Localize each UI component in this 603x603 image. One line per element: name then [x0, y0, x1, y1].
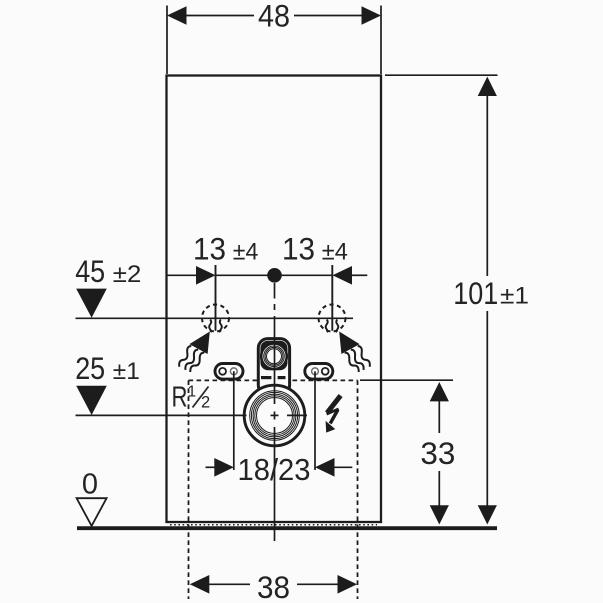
svg-text:±1: ±1	[113, 358, 140, 385]
dimension 18/23: arrows	[206, 466, 216, 468]
lightning bolt (electrical connection)	[327, 396, 341, 424]
seal strip under module	[170, 524, 377, 526]
vertical centerline	[274, 283, 276, 299]
svg-text:25: 25	[75, 350, 105, 386]
dimension 18/23: leader lines from flange holes	[233, 371, 235, 470]
svg-text:±2: ±2	[113, 261, 142, 288]
svg-text:±4: ±4	[322, 239, 348, 266]
dimension 38: line + arrows	[208, 583, 250, 585]
drain pipe: outer circle	[244, 385, 305, 446]
svg-text:2: 2	[201, 394, 210, 412]
dimension 13+13: line	[167, 274, 198, 276]
floor line	[77, 526, 497, 530]
svg-text:R: R	[172, 382, 188, 414]
svg-text:±4: ±4	[233, 239, 258, 266]
svg-text:0: 0	[82, 469, 98, 501]
svg-text:45: 45	[75, 253, 105, 289]
level 45 marker triangle	[76, 289, 107, 318]
dimension 33: extension line	[360, 379, 453, 381]
dimension 48: extension lines	[166, 6, 168, 75]
module outline (sanitary module front view)	[167, 76, 382, 523]
level line 45	[76, 317, 354, 319]
dashed layout rect: top edge	[189, 379, 358, 381]
dashed layout rect: right edge	[357, 380, 359, 599]
dimension 101: extension line top	[385, 74, 498, 76]
dimension 101: vertical line	[486, 95, 488, 276]
moist air arrow left (triangle + waves)	[177, 332, 209, 374]
svg-text:1: 1	[188, 384, 197, 401]
svg-text:18/23: 18/23	[238, 453, 311, 487]
level line 25 (also circle crosshair)	[76, 414, 247, 416]
moist air arrow right (mirrored)	[339, 332, 371, 374]
left flange	[215, 364, 243, 380]
dimension 48: line + arrows	[186, 15, 254, 17]
water supply fitting (rounded rect + rings)	[258, 339, 289, 395]
right flange	[305, 364, 333, 380]
R 1/2 label	[172, 382, 211, 414]
svg-text:33: 33	[420, 435, 455, 471]
svg-text:13: 13	[193, 231, 226, 267]
svg-text:±1: ±1	[500, 283, 529, 310]
dashed circle right	[319, 305, 346, 332]
dashed circle left (wall opening)	[202, 305, 229, 332]
svg-text:101: 101	[453, 275, 498, 311]
center node dot	[267, 268, 282, 283]
dimension 13 extension lines	[215, 265, 217, 331]
drain pipe ring band	[250, 391, 300, 441]
svg-text:38: 38	[257, 569, 290, 603]
squiggles inside left circle	[209, 320, 222, 333]
svg-text:48: 48	[258, 0, 290, 34]
dimension 33: vertical + arrows	[438, 401, 440, 434]
level 25 marker triangle	[76, 386, 107, 415]
svg-text:13: 13	[282, 231, 315, 267]
squiggles inside right circle	[326, 320, 339, 333]
dashed layout rect: left edge	[188, 380, 190, 599]
level 0 marker open triangle	[77, 498, 107, 526]
